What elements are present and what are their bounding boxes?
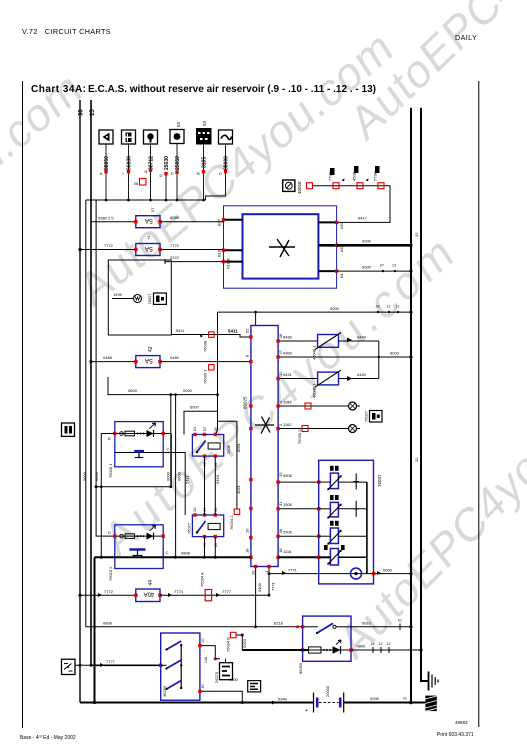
ECU K-symbol <box>255 417 274 434</box>
svg-text:14A: 14A <box>204 656 208 663</box>
svg-text:n1: n1 <box>403 697 407 701</box>
svg-text:DAILY: DAILY <box>455 33 477 42</box>
svg-text:5454: 5454 <box>215 474 220 484</box>
svg-text:Chart 34A:: Chart 34A: <box>31 84 86 95</box>
svg-text:44: 44 <box>148 580 154 586</box>
svg-text:15: 15 <box>90 109 96 116</box>
sensor 40558 (top right) <box>283 180 302 194</box>
bus 30 (left vertical supply line) <box>79 100 85 703</box>
svg-text:1116: 1116 <box>283 549 292 554</box>
svg-text:12: 12 <box>387 642 391 646</box>
svg-text:0600: 0600 <box>94 471 99 481</box>
wire: branch bus at x=96 down to mid rail <box>96 200 115 536</box>
svg-text:3185: 3185 <box>202 157 208 168</box>
svg-text:0000: 0000 <box>362 264 372 269</box>
svg-text:Print 603.43.371: Print 603.43.371 <box>437 732 474 738</box>
relay interconnect wires <box>163 453 215 558</box>
svg-text:5A: 5A <box>144 245 153 252</box>
svg-text:A18/B: A18/B <box>226 258 231 269</box>
svg-text:88000: 88000 <box>224 156 230 170</box>
icon S1 warning triangle <box>99 130 113 144</box>
svg-text:5411: 5411 <box>228 329 238 334</box>
svg-text:0409: 0409 <box>257 582 262 592</box>
lamp (pin 2) <box>283 422 360 444</box>
svg-text:D: D <box>160 173 163 178</box>
svg-text:1506: 1506 <box>283 502 293 507</box>
svg-text:18: 18 <box>245 548 250 553</box>
svg-text:B: B <box>197 171 200 176</box>
solenoid valve 4 <box>319 545 367 565</box>
svg-text:25030: 25030 <box>164 156 170 170</box>
svg-text:7772: 7772 <box>170 243 180 248</box>
svg-text:20000: 20000 <box>325 685 330 697</box>
relay R1 2508 <box>192 426 231 466</box>
svg-text:85050: 85050 <box>298 662 303 674</box>
svg-text:46046 1: 46046 1 <box>312 383 317 398</box>
svg-text:A52: A52 <box>339 221 344 229</box>
svg-text:86: 86 <box>214 508 218 512</box>
svg-text:C: C <box>166 550 169 555</box>
svg-text:D7: D7 <box>203 426 207 431</box>
module K1 pin id labels <box>217 218 345 278</box>
svg-text:0000: 0000 <box>370 696 380 701</box>
svg-text:76027: 76027 <box>364 410 369 422</box>
svg-text:7777: 7777 <box>222 589 232 594</box>
svg-text:D: D <box>171 171 174 176</box>
frame left border <box>22 81 24 728</box>
svg-text:6218: 6218 <box>274 621 284 626</box>
switch pack outputs <box>200 646 242 703</box>
svg-text:40A: 40A <box>144 591 155 597</box>
wire 8061/4021 trunk x=236.9 <box>218 421 242 530</box>
svg-text:86025: 86025 <box>243 396 248 409</box>
fuse F3 5A (42) <box>89 346 251 384</box>
wire verticals down from 394.6 run <box>170 395 172 487</box>
svg-text:40558: 40558 <box>297 181 302 194</box>
svg-text:2222: 2222 <box>170 255 180 260</box>
svg-text:18: 18 <box>371 642 375 646</box>
right bus B (x=421) <box>421 108 428 681</box>
svg-text:0900: 0900 <box>283 351 293 356</box>
resistor 46048/1 (slashed box) <box>283 333 379 361</box>
svg-text:0808: 0808 <box>181 551 191 556</box>
svg-text:76030 2: 76030 2 <box>297 429 302 444</box>
module1 feed wire + trunk x=101.3 <box>101 434 115 558</box>
wire 6007 link <box>184 405 218 435</box>
ECU right pin stubs and dots <box>278 341 411 536</box>
svg-text:0808: 0808 <box>103 620 113 625</box>
fuse F4 40A <box>78 572 270 602</box>
icon S3 lamp dot <box>144 130 158 144</box>
svg-text:53: 53 <box>176 121 181 127</box>
wire 7771/0000 run y=573.6 to bus <box>268 568 413 576</box>
svg-text:7777: 7777 <box>106 659 116 664</box>
module K1 right pin stubs <box>318 222 336 271</box>
svg-text:76077: 76077 <box>187 522 192 534</box>
red open connector square 36 on wire 3 <box>140 179 147 186</box>
pressure governor 85050 (blue box) <box>298 616 353 674</box>
valve block 76037 (blue) <box>319 460 374 584</box>
svg-text:6417: 6417 <box>358 216 368 221</box>
svg-text:6007: 6007 <box>190 405 200 410</box>
svg-text:4000: 4000 <box>229 677 239 682</box>
connector 76034/B (red open) <box>226 632 248 652</box>
svg-text:88712: 88712 <box>149 156 155 170</box>
svg-text:b7: b7 <box>380 264 384 268</box>
module K1 pin connector dots <box>222 218 338 273</box>
ECU left pin labels <box>245 328 250 553</box>
svg-text:76027: 76027 <box>147 293 152 305</box>
wire from sensor to module pin A52 <box>313 186 391 223</box>
svg-text:Base - 4rd Ed - May 2002: Base - 4rd Ed - May 2002 <box>20 735 76 742</box>
svg-text:N: N <box>145 169 148 174</box>
svg-text:7771: 7771 <box>271 581 276 591</box>
icon drop wires to bus <box>106 144 226 200</box>
lamp 1499 / 76027 inside enclosure <box>112 292 166 305</box>
wire 0000 lower from K1 to bus <box>337 270 411 272</box>
svg-text:30: 30 <box>79 109 85 116</box>
svg-text:8089: 8089 <box>170 215 180 220</box>
ground symbol <box>429 672 439 691</box>
svg-text:46048 1: 46048 1 <box>312 345 317 360</box>
icon S6 wave symbol <box>219 130 233 144</box>
svg-text:0600: 0600 <box>128 388 138 393</box>
governor feed (thick) <box>242 649 308 651</box>
icon S4 lamp dot with tag 53 <box>170 121 184 143</box>
svg-text:0800: 0800 <box>357 643 367 648</box>
module K1 outer box (blue) <box>224 206 337 288</box>
svg-text:0488: 0488 <box>103 355 113 360</box>
svg-text:+4: +4 <box>146 235 151 240</box>
svg-text:B1: B1 <box>339 272 344 278</box>
wire 6218 labels <box>103 620 299 628</box>
svg-text:76020 2: 76020 2 <box>108 566 113 581</box>
svg-text:7774: 7774 <box>174 589 184 594</box>
battery cells <box>305 685 344 714</box>
connector pair + icon near battery <box>229 677 261 692</box>
connector pin letters <box>100 169 223 178</box>
svg-text:10: 10 <box>201 639 205 643</box>
wire 0800 to bus <box>351 642 423 653</box>
svg-text:0440: 0440 <box>357 335 367 340</box>
svg-text:V.72 CIRCUIT CHARTS: V.72 CIRCUIT CHARTS <box>22 27 111 36</box>
solenoid valve 1 <box>319 466 367 490</box>
svg-text:0000: 0000 <box>183 388 193 393</box>
svg-text:5411: 5411 <box>176 328 185 333</box>
svg-text:1499: 1499 <box>113 292 123 297</box>
svg-text:76037: 76037 <box>377 474 382 487</box>
frame right border <box>478 81 480 727</box>
inline connectors 7790 / 4508 / 7738 on sensor wire <box>328 166 385 189</box>
wire trunk x=217.5 from 312 run down to relay R1 <box>215 312 217 434</box>
fuse F2 5A <box>78 235 223 256</box>
icon margin B (left) <box>62 423 75 436</box>
svg-text:76034 A: 76034 A <box>200 572 205 587</box>
right bus A (x=411) <box>410 108 412 703</box>
ECU left pin dots <box>249 335 252 559</box>
svg-text:0940: 0940 <box>278 697 288 702</box>
valve block internal right rail <box>366 482 368 573</box>
svg-text:76020 1: 76020 1 <box>108 463 113 478</box>
svg-text:26270: 26270 <box>214 671 219 683</box>
svg-text:+: + <box>305 708 308 714</box>
bus 15 (second vertical supply line) <box>90 100 161 665</box>
svg-text:88050: 88050 <box>104 156 110 170</box>
connector (red) at sensor <box>307 183 313 189</box>
compressor motor M (blue circle) <box>351 568 376 579</box>
svg-text:0440: 0440 <box>357 372 367 377</box>
svg-text:1162: 1162 <box>283 422 292 427</box>
svg-text:76030 1: 76030 1 <box>203 369 208 384</box>
svg-text:4021: 4021 <box>236 484 241 494</box>
svg-text:49693: 49693 <box>455 720 468 725</box>
switch unit 26270/NA <box>214 659 233 683</box>
svg-text:b1: b1 <box>398 619 402 623</box>
svg-text:7772: 7772 <box>104 243 114 248</box>
svg-text:18: 18 <box>376 305 380 309</box>
wire 2222 into K1 pin A18 <box>165 255 224 264</box>
pressure switch module 76020/2 (blue) <box>108 525 169 581</box>
svg-text:76038: 76038 <box>203 340 208 352</box>
icon S2 block symbol <box>122 130 136 144</box>
svg-text:D1: D1 <box>193 507 197 512</box>
svg-text:0000: 0000 <box>330 306 340 311</box>
svg-text:19: 19 <box>251 570 256 575</box>
svg-text:85: 85 <box>214 543 218 547</box>
svg-text:0480: 0480 <box>170 355 180 360</box>
svg-text:7771: 7771 <box>288 568 298 573</box>
svg-text:0000: 0000 <box>166 471 171 481</box>
svg-text:1184: 1184 <box>283 400 292 405</box>
svg-text:2506: 2506 <box>283 530 293 535</box>
svg-text:6003: 6003 <box>390 351 400 356</box>
svg-text:40: 40 <box>201 685 205 689</box>
svg-text:A: A <box>100 171 103 176</box>
junction dots on top bus <box>90 199 205 202</box>
svg-text:I: I <box>123 171 124 176</box>
svg-text:5421: 5421 <box>283 372 293 377</box>
solenoid valve 3 <box>319 521 367 545</box>
fuse F1 5A <box>91 207 224 228</box>
svg-text:66030: 66030 <box>127 156 133 170</box>
svg-text:D: D <box>219 171 222 176</box>
svg-text:5482: 5482 <box>283 335 293 340</box>
wire: branch bus at x=85.8 down to 6218 run <box>86 200 303 627</box>
svg-text:12: 12 <box>396 305 400 309</box>
wire 5411 from enclosure to ECU pin 52 <box>171 328 251 352</box>
svg-text:12: 12 <box>414 457 419 462</box>
svg-text:76034 2: 76034 2 <box>229 515 234 530</box>
wire 0600 / 0000 horizontal run y=394.6 <box>108 377 218 396</box>
module K1 left pin stubs <box>224 220 243 262</box>
svg-text:12: 12 <box>414 232 419 237</box>
relay R2 76077 <box>187 507 224 547</box>
icon margin switch (bottom left) <box>62 659 76 674</box>
svg-text:52: 52 <box>245 328 250 333</box>
wire: top collector bus y=200 <box>86 199 206 201</box>
wire 0000 long run y=312 to bus <box>218 305 413 326</box>
svg-text:B: B <box>108 436 111 441</box>
svg-text:25050: 25050 <box>175 156 181 170</box>
svg-text:36250: 36250 <box>162 685 167 697</box>
wire 0000 thick from K1 to bus <box>337 244 411 247</box>
red connector squares on icon wires <box>104 169 227 176</box>
ECU right pin labels <box>278 333 283 553</box>
svg-text:0600: 0600 <box>82 471 87 481</box>
svg-text:5A: 5A <box>144 217 153 224</box>
ECU 86025 central box (blue) <box>251 326 278 567</box>
svg-text:0580 2.5: 0580 2.5 <box>98 216 114 221</box>
wire codes under icons (rotated) <box>104 156 230 170</box>
icon S5 black display block with tag 53 <box>196 120 212 144</box>
svg-text:57: 57 <box>150 207 155 212</box>
ECU bottom pins 19 / 1 <box>251 565 276 627</box>
module K1 inner box (blue) <box>243 214 319 278</box>
switch pack 36250 (blue box) <box>161 633 200 700</box>
svg-text:8061: 8061 <box>236 442 241 452</box>
svg-text:0000: 0000 <box>383 568 393 573</box>
svg-text:C: C <box>167 447 170 452</box>
lamp 76027 (pin 4) <box>283 400 382 423</box>
svg-text:B18: B18 <box>217 249 222 257</box>
svg-text:0000: 0000 <box>362 239 372 244</box>
svg-text:2508: 2508 <box>226 444 231 454</box>
svg-text:7772: 7772 <box>104 589 114 594</box>
svg-text:12: 12 <box>387 305 391 309</box>
svg-text:9910: 9910 <box>362 620 372 625</box>
svg-text:D: D <box>108 530 111 535</box>
wire 0900/6003 to bus <box>283 341 413 379</box>
svg-text:12: 12 <box>379 642 383 646</box>
svg-text:36: 36 <box>134 181 139 186</box>
svg-text:5A: 5A <box>144 357 153 364</box>
pressure switch module 76020/1 (blue) <box>108 422 165 478</box>
wire from margin switch to switch pack y=665.3 <box>75 659 162 667</box>
svg-text:E.C.A.S. without reserve air r: E.C.A.S. without reserve air reservoir (… <box>88 84 376 95</box>
svg-text:0600: 0600 <box>177 471 182 481</box>
svg-text:53: 53 <box>202 120 207 126</box>
ground rail 0808 y=557.3 (thick) <box>95 551 251 703</box>
svg-text:86: 86 <box>214 463 218 467</box>
wire 9910 to bus <box>351 619 413 631</box>
module K1 K-symbol <box>269 239 295 257</box>
chassis mass block (hatched) <box>425 696 436 712</box>
svg-text:42: 42 <box>148 346 154 352</box>
svg-text:76034 B: 76034 B <box>226 637 231 652</box>
box 76027 indicator enclosure <box>108 260 171 335</box>
svg-text:5053: 5053 <box>242 638 247 648</box>
resistor 46046/1 (slashed box) <box>283 370 379 398</box>
svg-text:16: 16 <box>245 528 250 533</box>
solenoid valve 2 <box>319 495 367 519</box>
svg-text:5411: 5411 <box>185 475 190 484</box>
svg-text:9506: 9506 <box>283 473 293 478</box>
svg-text:30: 30 <box>214 427 218 431</box>
valve block left pin dots <box>317 480 320 559</box>
mid rail y=486.7 <box>95 434 173 489</box>
svg-text:D1: D1 <box>193 426 197 431</box>
svg-text:13: 13 <box>392 264 396 268</box>
bottom ground rail (thick) <box>80 696 425 705</box>
